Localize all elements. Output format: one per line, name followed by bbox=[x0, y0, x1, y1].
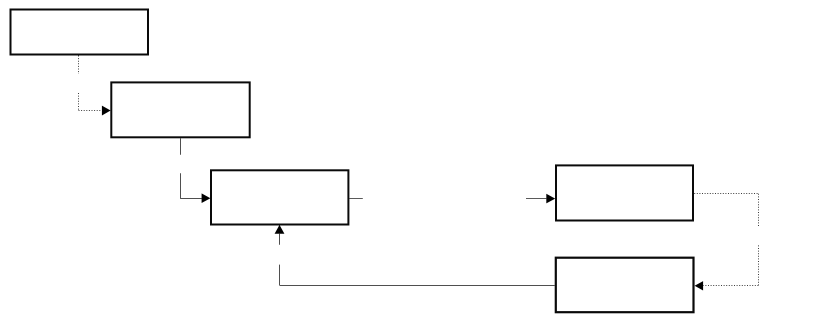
arrowhead into box 3 bbox=[202, 193, 211, 203]
wire: dotted connector box1 -> box2 (vertical with gap, then horizontal) bbox=[79, 56, 102, 111]
arrowhead into box 4 bbox=[546, 194, 555, 204]
arrowhead into box 3 bottom (pointing up) bbox=[275, 225, 285, 234]
arrowhead into box 2 bbox=[102, 106, 111, 116]
box 3 (center process block) bbox=[211, 170, 348, 224]
wire: dotted connector box4 -> box5 (right, down with gap, left) bbox=[694, 194, 758, 286]
wire: solid connector box2 -> box3 (vertical with gap, then horizontal) bbox=[180, 138, 202, 198]
box 2 bbox=[111, 82, 249, 137]
box 5 (right lower block) bbox=[556, 258, 694, 313]
box 4 (right upper block) bbox=[556, 165, 693, 220]
wire: solid connector box3 -> box4 (horizontal with long gap) bbox=[350, 198, 547, 200]
wire: solid return connector box5 -> box3 (left, up with gap) bbox=[280, 234, 555, 286]
arrowhead into box 5 (pointing left) bbox=[695, 281, 704, 290]
box 1 (top-left process block) bbox=[11, 10, 149, 55]
